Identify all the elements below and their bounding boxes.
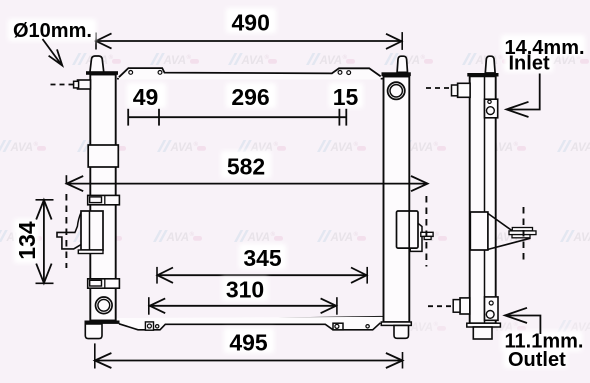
right tank port circle	[388, 82, 405, 99]
bracket hole 1	[129, 71, 133, 75]
left tank flange	[86, 71, 118, 75]
top bracket profile	[119, 68, 381, 79]
outlet pipe	[460, 298, 470, 314]
watermark row 2	[0, 140, 590, 154]
side foot	[473, 327, 492, 339]
L-foot	[57, 232, 81, 249]
side bracket gusset	[488, 214, 531, 250]
dashed link inlet	[426, 87, 452, 89]
dashed centerline right tank	[425, 196, 427, 267]
bracket hole 3	[338, 71, 342, 75]
tank edge through box	[408, 211, 410, 248]
core bottom line	[120, 317, 384, 321]
core top line	[117, 78, 384, 80]
right tank cap	[397, 56, 407, 72]
bracket hole 4	[347, 71, 351, 75]
right tank body	[384, 77, 410, 323]
svg-text:Ø10mm.: Ø10mm.	[13, 20, 92, 42]
dashed centerline side bracket	[523, 207, 525, 263]
left tank port circle	[96, 297, 113, 314]
side inner line	[484, 76, 486, 323]
svg-text:345: 345	[243, 245, 282, 271]
side cap	[485, 56, 495, 73]
box lower plate	[78, 250, 103, 254]
side body	[470, 76, 496, 323]
left pipe cap	[74, 81, 79, 88]
dashed link outlet	[428, 305, 453, 307]
left tank body	[90, 75, 115, 321]
right foot	[394, 325, 409, 338]
svg-text:Outlet: Outlet	[508, 349, 566, 371]
right bracket tab	[421, 232, 433, 236]
left tank bottom flange	[85, 321, 120, 324]
dimension 345	[157, 244, 367, 284]
svg-text:490: 490	[232, 10, 270, 36]
label 14.4mm. Inlet	[501, 35, 585, 117]
label Ø10mm.	[8, 19, 96, 66]
side flange	[467, 73, 498, 77]
svg-text:15: 15	[333, 84, 359, 110]
right bracket box	[397, 211, 419, 248]
inlet pipe cap	[452, 85, 458, 96]
left tank clamp 1	[88, 195, 120, 204]
left tank wide band	[88, 145, 118, 167]
box shoulder	[75, 213, 81, 233]
outlet pipe cap	[453, 300, 460, 313]
rail dot left	[156, 325, 159, 328]
dimension 495	[95, 328, 403, 369]
rail dot right	[366, 325, 369, 328]
dimension 582	[66, 151, 427, 191]
watermark row 1	[72, 53, 589, 67]
bracket hole 2	[158, 71, 162, 75]
left inlet pipe	[78, 80, 91, 89]
svg-text:Inlet: Inlet	[509, 53, 550, 75]
dashed centerline left	[65, 194, 67, 268]
side bottom flange	[467, 323, 501, 327]
bottom rail	[116, 317, 384, 330]
label 11.1mm. Outlet	[501, 308, 583, 371]
svg-text:49: 49	[133, 84, 159, 110]
rail clip left	[145, 322, 153, 330]
right bracket side plate	[410, 223, 422, 251]
dimension 310	[149, 277, 337, 315]
svg-text:134: 134	[14, 221, 40, 260]
side bottom box	[485, 297, 499, 320]
inlet pipe	[458, 83, 471, 97]
watermark row 4	[397, 320, 590, 334]
left tank cap	[90, 56, 104, 73]
side bracket block	[470, 212, 488, 250]
svg-text:582: 582	[227, 154, 265, 180]
left tank clamp 2	[88, 279, 120, 288]
svg-text:296: 296	[231, 84, 269, 110]
right tank bottom flange	[381, 322, 411, 325]
rail clip right	[333, 323, 343, 330]
dashed leader to pipe (Ø10)	[51, 84, 75, 86]
right tank flange	[382, 72, 411, 76]
side bracket plates	[512, 228, 532, 231]
side top box	[485, 99, 498, 118]
dimension 134 (vertical)	[14, 200, 54, 283]
svg-text:310: 310	[226, 277, 264, 303]
svg-text:495: 495	[229, 330, 268, 356]
attached box (left component)	[81, 211, 103, 250]
dimension 490	[96, 8, 402, 50]
dimension 49 / 296 / 15	[127, 83, 363, 126]
left foot	[85, 324, 102, 339]
watermark row 3	[0, 230, 590, 244]
